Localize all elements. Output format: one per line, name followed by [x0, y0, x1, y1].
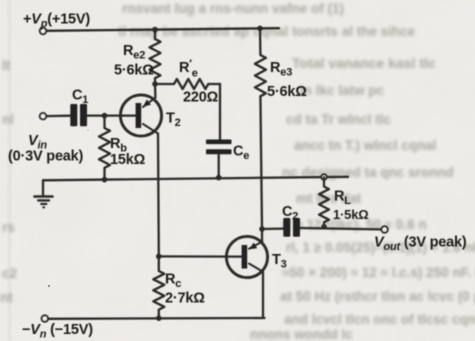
- node T2 collector / Rc / T3 base: [156, 254, 162, 260]
- value 5.6k (Re3): [267, 84, 307, 100]
- terminal +Vp: [40, 28, 46, 34]
- transistor T3: [226, 236, 267, 277]
- wire Vin to C1: [47, 115, 71, 118]
- terminal -Vn: [42, 315, 48, 321]
- wire +Vp supply rail: [47, 28, 280, 31]
- label Rc: [165, 272, 181, 291]
- capacitor Ce: [206, 140, 232, 155]
- value 2.7k (Rc): [165, 291, 205, 307]
- wire Ce to ground line: [218, 154, 220, 177]
- resistor Re2: [150, 30, 161, 84]
- resistor RL: [319, 177, 329, 227]
- wire T3 base: [159, 255, 242, 258]
- svg-text:1·5kΩ: 1·5kΩ: [333, 207, 368, 222]
- label -Vn (-15V): [22, 322, 93, 341]
- wire T3 collector down to -Vn rail: [262, 272, 264, 318]
- label C2: [282, 204, 298, 223]
- svg-text:rnsvant lug a rns-nunn vafne o: rnsvant lug a rns-nunn vafne of (1): [122, 1, 344, 16]
- svg-text:+Vp(+15V): +Vp(+15V): [23, 12, 90, 31]
- label Re3: [270, 60, 292, 79]
- node Rc bottom / -Vn rail: [156, 315, 162, 321]
- node Rb bottom / ground line: [102, 177, 108, 183]
- svg-text:ln lkc latw pc: ln lkc latw pc: [300, 83, 385, 98]
- wire T2 collector down to T3 base node: [157, 134, 160, 257]
- svg-text:5·6kΩ: 5·6kΩ: [267, 84, 307, 100]
- terminal Vin: [40, 113, 46, 119]
- svg-text:and lcvcl tlcn onc of tlcsc c: and lcvcl tlcn onc of tlcsc cqnst: [284, 312, 475, 327]
- label Vout (3V peak): [374, 235, 467, 254]
- value 1.5k (RL): [333, 207, 368, 222]
- resistor R'e: [155, 79, 220, 89]
- node Re2 bottom / R'e / T2 emitter: [152, 81, 158, 87]
- wire ground bus: [43, 177, 348, 181]
- node RL bottom / output wire: [321, 224, 327, 230]
- label (0.3V peak): [8, 149, 84, 165]
- wire R'e to Ce: [219, 84, 221, 140]
- ground: [35, 180, 53, 207]
- node Re3 / C2 / T3 emitter: [259, 226, 265, 232]
- resistor Re3: [255, 28, 266, 229]
- label T3: [272, 252, 287, 271]
- svg-text:rs: rs: [2, 220, 15, 235]
- terminal Vout: [381, 226, 387, 232]
- label Vin: [28, 133, 47, 152]
- wire C2 to Vout: [300, 228, 381, 229]
- value 220 (R'e): [183, 90, 219, 106]
- node rail / Re3 top: [257, 26, 263, 32]
- svg-text:at 50 Hz (rsthcr tlsn ac lcvc: at 50 Hz (rsthcr tlsn ac lcvc (0 pcak lc…: [280, 289, 475, 304]
- wire T2 emitter stub: [154, 84, 157, 98]
- node rail / Re2 top: [152, 27, 158, 33]
- wire Re3 node to C2: [262, 227, 283, 230]
- transistor T2: [120, 95, 161, 136]
- svg-text:c2: c2: [2, 266, 17, 281]
- value 5.6k (Re2): [114, 63, 154, 79]
- value 15k (Rb): [110, 152, 146, 168]
- svg-text:nl: nl: [2, 112, 14, 127]
- wire -Vn rail: [48, 317, 264, 320]
- wire C1 to T2 base: [87, 114, 135, 116]
- capacitor C2: [283, 218, 300, 237]
- label T2: [166, 111, 181, 130]
- node C1 / Rb / base: [102, 113, 108, 119]
- node RL top / ground line: [321, 174, 326, 179]
- svg-text:tl rnay be ascrted ap cqnal to: tl rnay be ascrted ap cqnal tonsrts al t…: [118, 24, 416, 39]
- label Ce: [233, 144, 249, 163]
- wire T3 emitter stub: [261, 229, 263, 242]
- label C1: [72, 88, 88, 107]
- svg-text:15kΩ: 15kΩ: [110, 152, 146, 168]
- svg-text:cd ta Tr wlncl tlc: cd ta Tr wlncl tlc: [286, 112, 392, 127]
- label R'e: [179, 58, 198, 80]
- capacitor C1: [70, 104, 87, 126]
- svg-text:220Ω: 220Ω: [183, 90, 219, 106]
- svg-text:5·6kΩ: 5·6kΩ: [114, 63, 154, 79]
- svg-text:≈50 × 200) ≈ 12 ≈ l.c.s) 250 n: ≈50 × 200) ≈ 12 ≈ l.c.s) 250 nF. lf tlc …: [282, 265, 475, 280]
- svg-text:lt: lt: [2, 58, 11, 73]
- svg-text:Total vanance kasl tlc: Total vanance kasl tlc: [292, 55, 436, 71]
- resistor Rb: [99, 116, 110, 180]
- label Re2: [123, 43, 145, 62]
- node Ce / ground line: [216, 175, 222, 181]
- label +Vp (+15V): [23, 12, 90, 31]
- svg-text:nnons wondd lc: nnons wondd lc: [250, 327, 353, 341]
- label RL: [334, 189, 351, 208]
- label Rb: [110, 136, 127, 155]
- svg-text:2·7kΩ: 2·7kΩ: [165, 291, 205, 307]
- svg-text:ancc tn T.) wlncl cqnal: ancc tn T.) wlncl cqnal: [294, 138, 437, 153]
- svg-text:−Vn (−15V): −Vn (−15V): [22, 322, 93, 341]
- svg-text:(0·3V peak): (0·3V peak): [8, 149, 84, 165]
- svg-text:nt: nt: [0, 290, 13, 305]
- resistor Rc: [153, 256, 164, 318]
